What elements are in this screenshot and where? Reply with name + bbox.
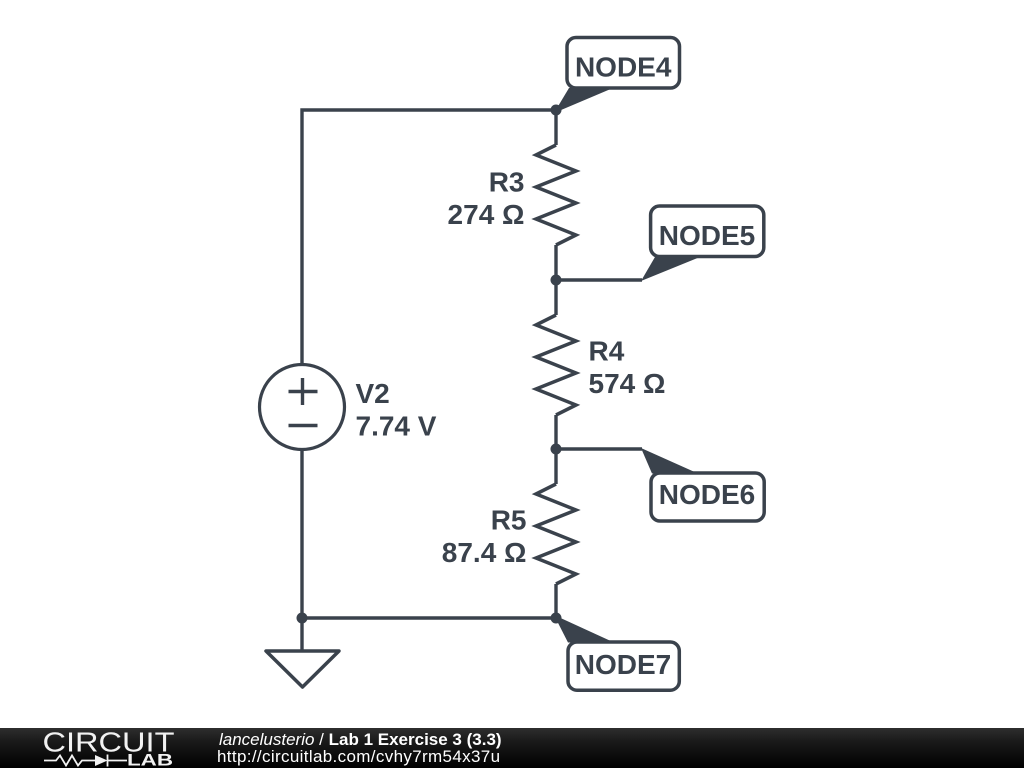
svg-text:NODE4: NODE4	[575, 52, 672, 83]
NODE6 callout tail	[641, 448, 698, 474]
footer line 2: url	[217, 747, 500, 767]
svg-text:V2: V2	[356, 378, 390, 409]
svg-text:LAB: LAB	[127, 751, 173, 768]
svg-text:NODE5: NODE5	[659, 220, 755, 251]
wire NODE5 stub	[556, 278, 642, 281]
NODE7 callout tail	[554, 615, 614, 643]
svg-text:7.74 V: 7.74 V	[356, 411, 437, 442]
resistor R3 zigzag	[536, 145, 576, 245]
V2 plus sign	[289, 378, 318, 405]
resistor R4 zigzag	[536, 315, 576, 415]
footer line 1: author / title	[219, 730, 502, 750]
ground stub wire	[300, 618, 303, 651]
wire bottom horizontal from V2 bottom to NODE7	[302, 450, 556, 619]
junction node dot ground	[297, 613, 308, 624]
svg-text:R5: R5	[491, 505, 527, 536]
NODE7 callout box	[568, 642, 679, 690]
ground triangle	[266, 651, 339, 687]
svg-text:R3: R3	[489, 167, 525, 198]
resistor R5 zigzag	[536, 484, 576, 584]
voltage source V2 circle	[260, 365, 345, 450]
wire R5 bottom lead	[554, 584, 557, 618]
V2 minus sign	[289, 424, 318, 427]
junction node dot NODE5	[551, 275, 562, 286]
svg-text:R4: R4	[589, 336, 625, 367]
footer bar	[0, 728, 1024, 768]
wire R3 to NODE5 junction	[554, 245, 557, 315]
wire R4 to NODE6 junction	[554, 415, 557, 484]
NODE6 callout box	[651, 473, 764, 521]
NODE5 callout box	[651, 206, 764, 257]
NODE4 callout box	[567, 38, 680, 89]
wire right rail R3 top lead	[554, 110, 557, 145]
logo diode triangle	[95, 755, 108, 766]
svg-text:NODE7: NODE7	[575, 649, 671, 680]
logo resistor-diode squiggle	[44, 755, 127, 767]
junction node dot NODE4	[551, 105, 562, 116]
svg-text:87.4 Ω: 87.4 Ω	[442, 537, 527, 568]
svg-text:274 Ω: 274 Ω	[448, 199, 525, 230]
svg-text:574 Ω: 574 Ω	[589, 368, 666, 399]
NODE5 callout tail	[641, 257, 700, 281]
wire NODE6 stub	[556, 447, 642, 450]
junction node dot NODE6	[551, 444, 562, 455]
junction node dot NODE7	[551, 613, 562, 624]
svg-text:NODE6: NODE6	[659, 479, 755, 510]
CircuitLab logo	[0, 728, 180, 768]
wire top horizontal from V2 top to NODE4	[302, 110, 556, 365]
NODE4 callout tail	[554, 88, 613, 113]
